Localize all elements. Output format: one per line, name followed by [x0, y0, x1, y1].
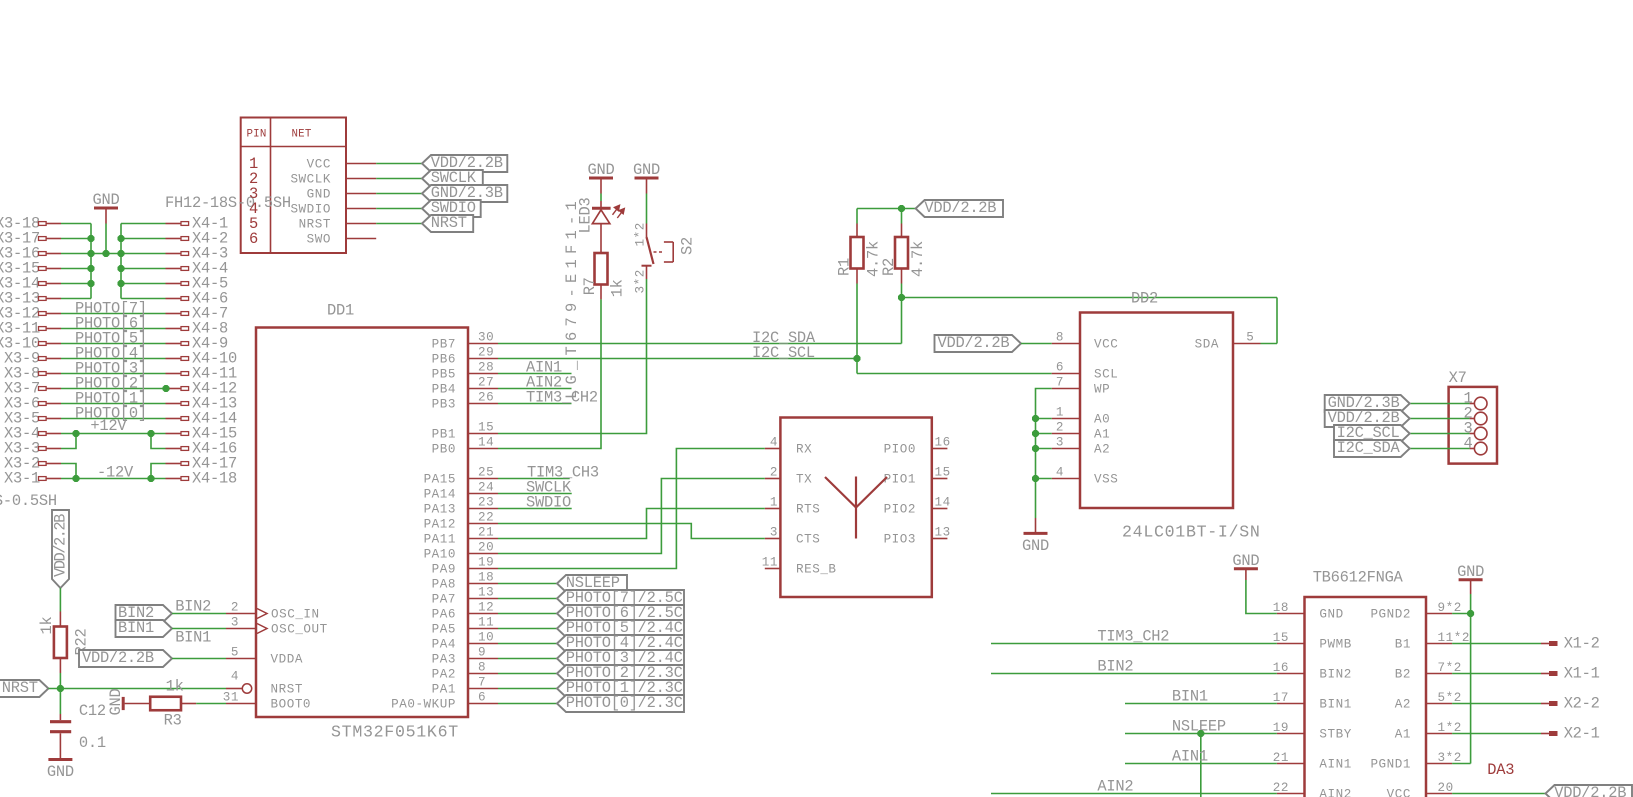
net flag SWDIO	[422, 200, 481, 217]
svg-text:PIO3: PIO3	[884, 533, 916, 547]
wire X3 row 16 to rail	[61, 253, 91, 255]
junction	[1197, 730, 1204, 737]
DD1 pin 30 PB7	[468, 343, 498, 345]
svg-text:3: 3	[1056, 436, 1064, 450]
svg-text:GND: GND	[307, 188, 331, 202]
wire net PHOTO[5]	[61, 343, 166, 345]
svg-text:GND: GND	[633, 161, 660, 179]
wire PA7 to flag	[498, 598, 557, 600]
net flag PHOTO[5]/2.4C	[557, 620, 684, 637]
svg-text:A2: A2	[1395, 698, 1411, 712]
svg-text:PGND2: PGND2	[1370, 608, 1411, 622]
svg-text:PIO1: PIO1	[884, 473, 916, 487]
svg-text:25: 25	[478, 466, 494, 480]
DD1 pin 14 PB0	[468, 448, 498, 450]
svg-text:VSS: VSS	[1094, 473, 1118, 487]
wire X3 row 13 to rail	[61, 298, 91, 300]
svg-text:NRST: NRST	[271, 683, 303, 697]
junction	[117, 250, 124, 257]
svg-text:30: 30	[478, 331, 494, 345]
svg-text:PA15: PA15	[424, 473, 456, 487]
svg-text:I2C_SDA: I2C_SDA	[1337, 439, 1401, 457]
rf module box	[780, 418, 931, 598]
X7 pin 1	[1470, 403, 1475, 405]
wire net SWCLK (PA14)	[498, 493, 572, 495]
DD1 pin 2 OSC_IN	[226, 613, 256, 615]
svg-text:PA11: PA11	[424, 533, 456, 547]
svg-text:R2: R2	[880, 258, 898, 276]
X7 pin 4	[1470, 448, 1475, 450]
wire flag to VDDA	[172, 658, 226, 660]
svg-text:14: 14	[935, 496, 951, 510]
svg-text:PA9: PA9	[432, 563, 456, 577]
wire PA0 to flag	[498, 703, 557, 705]
net flag VDD/2.2B (X7)	[1325, 410, 1410, 427]
wire BIN2 to OSC_IN	[172, 613, 226, 615]
rf module pin 13 PIO3	[932, 538, 948, 540]
connector pin X4-7	[166, 313, 182, 315]
DD1 pin 18 PA8	[468, 583, 498, 585]
wire rail bridge row X4-3	[91, 253, 121, 255]
junction	[1032, 445, 1039, 452]
svg-text:SWDIO: SWDIO	[526, 493, 571, 511]
rf module pin 14 PIO2	[932, 508, 948, 510]
svg-text:VDDA: VDDA	[271, 653, 303, 667]
driver DA3 box	[1305, 597, 1427, 797]
svg-text:NRST: NRST	[299, 218, 331, 232]
wire net PHOTO[3]	[61, 373, 166, 375]
svg-text:SWO: SWO	[307, 233, 331, 247]
svg-text:NET: NET	[292, 129, 312, 141]
DD2 pin 8 VCC	[1052, 343, 1080, 345]
DA3 pin 9*2 PGND2	[1426, 613, 1452, 615]
DD1 pin 20 PA10	[468, 553, 498, 555]
svg-text:VDD/2.2B: VDD/2.2B	[82, 649, 154, 667]
wire net I2C_SCL PB6	[498, 358, 857, 360]
DD1 pin 8 PA2	[468, 673, 498, 675]
junction	[1032, 475, 1039, 482]
X7 pin 3	[1470, 433, 1475, 435]
connector pin X2-1	[1452, 733, 1541, 735]
net flag NSLEEP	[557, 575, 627, 592]
svg-text:FH12-18S-0.5SH: FH12-18S-0.5SH	[165, 194, 291, 212]
connector pin X4-10	[166, 358, 182, 360]
X7 pin 2	[1470, 418, 1475, 420]
DD2 pin 3 A2	[1052, 448, 1080, 450]
svg-text:3: 3	[770, 526, 778, 540]
ground symbol (X3 harness)	[94, 207, 118, 210]
svg-text:29: 29	[478, 346, 494, 360]
wire net NSLEEP (STBY)	[1125, 733, 1277, 735]
wire rail to X4-2	[121, 238, 166, 240]
resistor R7	[595, 253, 608, 285]
svg-text:21: 21	[478, 526, 494, 540]
junction	[147, 475, 154, 482]
svg-text:S2: S2	[679, 237, 697, 255]
svg-text:AIN2: AIN2	[1097, 778, 1133, 796]
svg-text:1k: 1k	[608, 279, 626, 297]
svg-text:A1: A1	[1395, 728, 1411, 742]
svg-text:DD2: DD2	[1131, 290, 1158, 308]
DA3 pin 15 PWMB	[1277, 643, 1305, 645]
eeprom DD2 box	[1080, 313, 1233, 509]
wire R3 to BOOT0	[196, 703, 226, 705]
svg-text:8: 8	[478, 661, 486, 675]
net flag PHOTO[4]/2.4C	[557, 635, 684, 652]
svg-text:A2: A2	[1094, 443, 1110, 457]
ground symbol (C12)	[48, 758, 72, 761]
wire net PHOTO[4]	[61, 358, 166, 360]
DD1 pin 4 NRST	[226, 688, 242, 690]
junction	[117, 280, 124, 287]
svg-text:SWCLK: SWCLK	[290, 173, 331, 187]
svg-text:OSC_IN: OSC_IN	[271, 608, 320, 622]
svg-text:PIO2: PIO2	[884, 503, 916, 517]
svg-text:TIM3_CH2: TIM3_CH2	[526, 388, 598, 406]
resistor R1	[856, 209, 858, 224]
svg-text:B1: B1	[1395, 638, 1411, 652]
wire X3 row 17 to rail	[61, 238, 91, 240]
net flag VDD/2.2B (VDDA)	[79, 650, 172, 667]
svg-text:PA1: PA1	[432, 683, 456, 697]
DD1 pin 21 PA11	[468, 538, 498, 540]
svg-text:FH12-18S-0.5SH: FH12-18S-0.5SH	[0, 492, 57, 510]
svg-text:31: 31	[223, 691, 239, 705]
wire GND drop to X4-3 row	[105, 224, 107, 254]
capacitor C12	[59, 714, 61, 720]
wire left GND rail	[90, 224, 92, 299]
svg-text:24: 24	[478, 481, 494, 495]
svg-text:PB7: PB7	[432, 338, 456, 352]
DA3 pin 11*2 B1	[1426, 643, 1452, 645]
connector pin X4-18	[166, 478, 182, 480]
svg-text:BIN1: BIN1	[1319, 698, 1351, 712]
svg-text:CTS: CTS	[796, 533, 820, 547]
svg-text:11: 11	[762, 556, 778, 570]
connector pin X4-17	[166, 463, 182, 465]
wire X3 row 14 to rail	[61, 283, 91, 285]
DD2 pin 7 WP	[1052, 388, 1080, 390]
wire LED3 to R7	[600, 224, 602, 253]
wire X7-2	[1410, 418, 1470, 420]
resistor R22	[59, 612, 61, 627]
svg-text:VDD/2.2B: VDD/2.2B	[1554, 784, 1626, 797]
resistor R3	[125, 703, 151, 705]
DA3 pin 18 GND	[1277, 613, 1305, 615]
svg-text:6: 6	[249, 230, 258, 248]
svg-text:20: 20	[1438, 781, 1454, 795]
ground symbol (S2)	[635, 177, 659, 180]
net flag VDD/2.2B (R22, vertical)	[52, 510, 69, 588]
svg-text:STM32F051K6T: STM32F051K6T	[331, 723, 459, 742]
wire SWDIO to flag	[376, 208, 422, 210]
DD1 pin 23 PA13	[468, 508, 498, 510]
connector pin X4-3	[166, 253, 182, 255]
svg-text:PA4: PA4	[432, 638, 456, 652]
svg-text:X3-1: X3-1	[4, 470, 40, 488]
connector pin X4-9	[166, 343, 182, 345]
svg-text:PIO0: PIO0	[884, 443, 916, 457]
rf module pin 16 PIO0	[932, 448, 948, 450]
svg-text:X4-18: X4-18	[192, 470, 237, 488]
DD1 pin 5 VDDA	[226, 658, 256, 660]
svg-text:PA5: PA5	[432, 623, 456, 637]
net flag VDD/2.2B (DD2 VCC)	[935, 335, 1022, 352]
svg-text:A1: A1	[1094, 428, 1110, 442]
wire flag to DD2 VCC	[1021, 343, 1052, 345]
svg-text:28: 28	[478, 361, 494, 375]
svg-text:PIN: PIN	[247, 129, 267, 141]
DA3 pin 5*2 A2	[1426, 703, 1452, 705]
junction	[117, 235, 124, 242]
DD1 pin 26 PB3	[468, 403, 498, 405]
svg-text:PB3: PB3	[432, 398, 456, 412]
DD1 pin 9 PA3	[468, 658, 498, 660]
svg-text:R7: R7	[581, 277, 599, 295]
svg-text:27: 27	[478, 376, 494, 390]
svg-text:LG_T679-E1F1-1: LG_T679-E1F1-1	[563, 196, 581, 399]
DD2 pin 2 A1	[1052, 433, 1080, 435]
svg-text:7: 7	[478, 676, 486, 690]
svg-text:PA0-WKUP: PA0-WKUP	[391, 698, 456, 712]
DD2 pin 1 A0	[1052, 418, 1080, 420]
svg-text:4.7k: 4.7k	[909, 241, 927, 277]
svg-text:14: 14	[478, 436, 494, 450]
connector pin X4-11	[166, 373, 182, 375]
connector pin X4-14	[166, 418, 182, 420]
DD1 pin 31 BOOT0	[226, 703, 256, 705]
DA3 pin 1*2 A1	[1426, 733, 1452, 735]
wire R2 to SDA	[901, 284, 903, 298]
rf module pin 15 PIO1	[932, 478, 948, 480]
connector pin X4-8	[166, 328, 182, 330]
wire TX to PA10	[498, 479, 765, 554]
connector pin X4-1	[166, 223, 182, 225]
net flag GND/2.3B (X7)	[1325, 395, 1410, 412]
svg-text:11: 11	[478, 616, 494, 630]
connector pin X1-1	[1452, 673, 1541, 675]
wire -12V to X3-2	[61, 464, 76, 479]
svg-text:13: 13	[478, 586, 494, 600]
switch S2	[646, 224, 648, 238]
svg-text:OSC_OUT: OSC_OUT	[271, 623, 328, 637]
DD1 pin 27 PB4	[468, 388, 498, 390]
svg-text:5: 5	[1246, 331, 1254, 345]
connector pin X4-12	[166, 388, 182, 390]
DA3 pin 7*2 B2	[1426, 673, 1452, 675]
DA3 pin 19 STBY	[1277, 733, 1305, 735]
rf module pin 4 RX	[765, 448, 781, 450]
wire R7 to PB0	[498, 299, 601, 448]
svg-text:15: 15	[478, 421, 494, 435]
svg-text:PB6: PB6	[432, 353, 456, 367]
connector table SWD PIN/NET box	[241, 118, 346, 254]
wire X3 row 18 to rail	[61, 223, 91, 225]
wire net BIN1 (DA3)	[1125, 703, 1277, 705]
svg-text:DA3: DA3	[1487, 761, 1514, 779]
net flag PHOTO[3]/2.4C	[557, 650, 684, 667]
svg-text:0.1: 0.1	[79, 734, 106, 752]
wire PGND2 to PGND1	[1470, 614, 1472, 764]
DD1 pin 25 PA15	[468, 478, 498, 480]
svg-text:4: 4	[231, 670, 239, 684]
net flag GND/2.3B	[422, 185, 507, 202]
svg-text:6: 6	[478, 691, 486, 705]
net flag PHOTO[1]/2.3C	[557, 680, 684, 697]
wire rail to X4-5	[121, 283, 166, 285]
connector pin X4-15	[166, 433, 182, 435]
svg-text:TIM3_CH2: TIM3_CH2	[1097, 628, 1169, 646]
svg-text:GND: GND	[1457, 563, 1484, 581]
svg-text:-12V: -12V	[97, 463, 134, 481]
svg-text:PWMB: PWMB	[1319, 638, 1351, 652]
ground symbol (DD2)	[1035, 518, 1037, 533]
wire net PHOTO[0]	[61, 418, 166, 420]
DD1 pin 10 PA4	[468, 643, 498, 645]
svg-text:GND: GND	[588, 161, 615, 179]
svg-text:TB6612FNGA: TB6612FNGA	[1313, 569, 1404, 587]
DA3 pin 3*2 PGND1	[1426, 763, 1452, 765]
net flag I2C_SCL (X7)	[1334, 425, 1410, 442]
wire PA2 to flag	[498, 673, 557, 675]
wire net PHOTO[1]	[61, 403, 166, 405]
svg-text:VDD/2.2B: VDD/2.2B	[938, 334, 1010, 352]
svg-text:STBY: STBY	[1319, 728, 1351, 742]
wire +12V to X4-16	[151, 434, 166, 449]
wire net SWDIO (PA13)	[498, 508, 572, 510]
svg-text:BIN1: BIN1	[118, 619, 154, 637]
svg-text:18: 18	[478, 571, 494, 585]
wire GND to S2	[646, 194, 648, 224]
svg-text:4: 4	[1056, 466, 1064, 480]
svg-text:2: 2	[231, 601, 239, 615]
svg-text:BIN1: BIN1	[1172, 688, 1208, 706]
junction	[117, 265, 124, 272]
svg-text:PB5: PB5	[432, 368, 456, 382]
svg-text:AIN2: AIN2	[1319, 788, 1351, 797]
junction	[162, 385, 169, 392]
DD1 pin 13 PA7	[468, 598, 498, 600]
net flag BIN2 (OSC_IN)	[116, 605, 173, 622]
svg-text:6: 6	[1056, 361, 1064, 375]
svg-text:A0: A0	[1094, 413, 1110, 427]
DA3 pin 17 BIN1	[1277, 703, 1305, 705]
junction	[87, 265, 94, 272]
svg-text:20: 20	[478, 541, 494, 555]
svg-text:DD1: DD1	[327, 302, 354, 320]
DA3 pin 20 VCC	[1426, 793, 1452, 795]
svg-text:4: 4	[770, 436, 778, 450]
DD1 pin 15 PB1	[468, 433, 498, 435]
net flag NRST	[422, 215, 473, 232]
svg-text:9: 9	[478, 646, 486, 660]
svg-text:3*2: 3*2	[634, 269, 648, 293]
wire net BIN2 (DA3)	[991, 673, 1277, 675]
svg-text:PA3: PA3	[432, 653, 456, 667]
svg-text:PA10: PA10	[424, 548, 456, 562]
wire RX to PA9	[498, 449, 765, 569]
wire PA4 to flag	[498, 643, 557, 645]
DD1 pin 29 PB6	[468, 358, 498, 360]
ground symbol (PGND)	[1459, 578, 1483, 581]
svg-text:1: 1	[1056, 406, 1064, 420]
wire GND to LED3	[600, 194, 602, 202]
net flag BIN1 (OSC_OUT)	[116, 620, 173, 637]
svg-text:16: 16	[935, 436, 951, 450]
svg-text:X2-2: X2-2	[1564, 695, 1600, 713]
junction GND tap	[102, 250, 109, 257]
svg-text:GND: GND	[107, 689, 125, 716]
svg-text:BIN2: BIN2	[1319, 668, 1351, 682]
connector pin X4-4	[166, 268, 182, 270]
svg-text:PA13: PA13	[424, 503, 456, 517]
wire net +12V	[61, 433, 166, 435]
wire X3 row 15 to rail	[61, 268, 91, 270]
resistor R2	[901, 209, 903, 224]
wire right GND rail	[120, 224, 122, 299]
svg-text:PB4: PB4	[432, 383, 456, 397]
junction	[87, 280, 94, 287]
rf module pin 11 RES_B	[765, 568, 781, 570]
net flag PHOTO[2]/2.3C	[557, 665, 684, 682]
junction	[898, 294, 905, 301]
net flag SWCLK	[422, 170, 483, 187]
svg-text:19: 19	[478, 556, 494, 570]
svg-text:BIN1: BIN1	[175, 628, 211, 646]
svg-text:1k: 1k	[38, 617, 56, 635]
DD1 pin 11 PA5	[468, 628, 498, 630]
wire X7-1	[1410, 403, 1470, 405]
svg-text:GND: GND	[1319, 608, 1343, 622]
wire rail to X4-6	[121, 298, 166, 300]
svg-text:X1-1: X1-1	[1564, 665, 1600, 683]
svg-text:VCC: VCC	[1094, 338, 1118, 352]
svg-text:7: 7	[1056, 376, 1064, 390]
wire NRST to flag	[376, 223, 422, 225]
led LED3	[600, 201, 602, 207]
svg-text:SDA: SDA	[1195, 338, 1219, 352]
connector X7 box	[1449, 387, 1497, 464]
svg-text:PA14: PA14	[424, 488, 456, 502]
svg-text:26: 26	[478, 391, 494, 405]
net flag NRST (bottom left)	[0, 680, 48, 697]
junction	[1032, 430, 1039, 437]
svg-text:VDD/2.2B: VDD/2.2B	[52, 514, 70, 577]
DD1 pin 12 PA6	[468, 613, 498, 615]
wire VDD rail to R1 R2	[857, 208, 916, 210]
wire NRST to C12	[59, 689, 61, 715]
svg-text:BIN2: BIN2	[1097, 658, 1133, 676]
junction	[72, 475, 79, 482]
svg-text:PGND1: PGND1	[1370, 758, 1411, 772]
wire PA6 to flag	[498, 613, 557, 615]
connector pin X4-5	[166, 283, 182, 285]
wire X7-3	[1410, 433, 1470, 435]
DA3 pin 16 BIN2	[1277, 673, 1305, 675]
junction	[853, 355, 860, 362]
DD1 pin 22 PA12	[468, 523, 498, 525]
wire CTS to PA12	[498, 524, 765, 539]
svg-text:2: 2	[770, 466, 778, 480]
wire rail to X4-4	[121, 268, 166, 270]
antenna symbol	[825, 477, 887, 539]
junction	[87, 235, 94, 242]
svg-text:VCC: VCC	[307, 158, 331, 172]
ground symbol (R3, rotated)	[122, 697, 125, 710]
svg-text:VDD/2.2B: VDD/2.2B	[924, 199, 996, 217]
svg-text:R1: R1	[836, 258, 854, 276]
svg-text:PA12: PA12	[424, 518, 456, 532]
